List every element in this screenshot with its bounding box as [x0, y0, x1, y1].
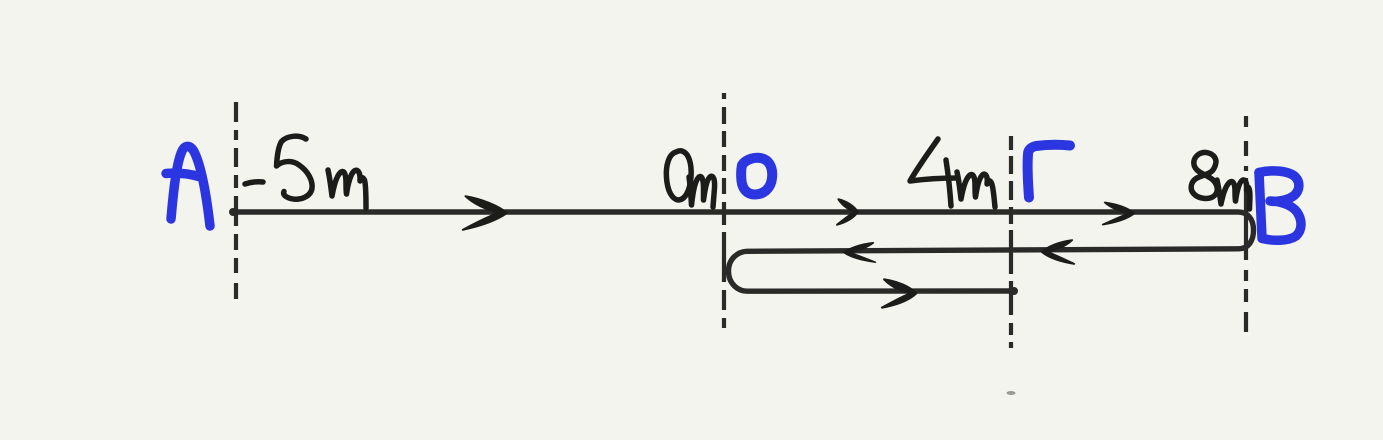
label 0m	[666, 151, 714, 207]
arrow right on lower line (toward Gamma)	[882, 279, 916, 307]
dashed line B (x=8m)	[1244, 116, 1248, 332]
arrow left on return line (near O)	[844, 243, 875, 262]
label -5m	[245, 136, 366, 208]
arrow right on main line (between Gamma and B)	[1103, 203, 1134, 225]
return path: B u-turn, back line to O, u-turn, forward line to Gamma	[729, 212, 1254, 295]
arrow right on main line (between A and O)	[463, 196, 507, 230]
label 8m	[1191, 152, 1250, 209]
main axis line A to B	[229, 208, 1238, 216]
dashed line A (x=-5m)	[234, 102, 238, 299]
node Gamma (blue)	[1028, 145, 1070, 198]
faint dot below Gamma line	[1007, 391, 1016, 395]
arrow right on main line (between O and Gamma)	[837, 199, 858, 225]
node A (blue)	[166, 146, 210, 226]
node B (blue)	[1259, 171, 1301, 240]
label 4m	[910, 139, 995, 207]
node O (blue)	[741, 158, 772, 195]
dashed line Gamma (x=4m)	[1009, 136, 1013, 348]
arrow left on return line (near Gamma)	[1042, 240, 1074, 264]
dashed line O (x=0m)	[722, 93, 726, 328]
